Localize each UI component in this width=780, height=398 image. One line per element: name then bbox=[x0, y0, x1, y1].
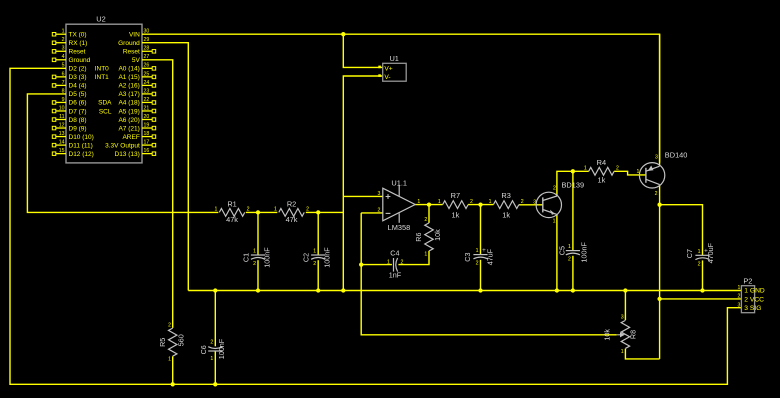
svg-text:1: 1 bbox=[387, 259, 390, 265]
svg-text:A0 (14): A0 (14) bbox=[118, 66, 139, 73]
svg-text:25: 25 bbox=[144, 71, 150, 77]
resistor R5 560 (vertical, in 5V line) bbox=[158, 322, 185, 362]
svg-text:3 SIG: 3 SIG bbox=[744, 305, 761, 312]
svg-text:R1: R1 bbox=[227, 200, 236, 209]
svg-text:AREF: AREF bbox=[122, 134, 139, 141]
svg-text:28: 28 bbox=[144, 46, 150, 52]
svg-text:1: 1 bbox=[62, 29, 65, 35]
wire C5 top lead bbox=[572, 171, 574, 250]
svg-text:R8: R8 bbox=[629, 330, 638, 339]
junction feedback / C4 bbox=[359, 262, 363, 266]
resistor R3 1k bbox=[489, 191, 524, 219]
wire op-amp - input from feedback vertical bbox=[361, 212, 383, 214]
svg-text:1: 1 bbox=[215, 207, 218, 213]
wire collector node right to C7 top bbox=[660, 205, 703, 256]
svg-text:4: 4 bbox=[62, 54, 65, 60]
svg-text:9: 9 bbox=[62, 97, 65, 103]
svg-text:3: 3 bbox=[378, 191, 381, 197]
wire C7 bottom lead to GND rail bbox=[702, 260, 704, 290]
junction BD140 collector / C7 node bbox=[657, 203, 661, 207]
wire R1 out to R2 in bbox=[246, 211, 277, 213]
wire op-amp output to R7 bbox=[415, 204, 442, 206]
svg-text:100nF: 100nF bbox=[217, 338, 226, 359]
svg-text:1: 1 bbox=[210, 356, 213, 362]
svg-text:C5: C5 bbox=[558, 246, 567, 255]
svg-text:Reset: Reset bbox=[123, 49, 140, 56]
svg-text:23: 23 bbox=[144, 88, 150, 94]
svg-text:18: 18 bbox=[144, 131, 150, 137]
resistor R6 10k (vertical, op-amp feedback) bbox=[414, 217, 442, 257]
resistor R7 1k bbox=[438, 191, 473, 219]
svg-text:2: 2 bbox=[306, 207, 309, 213]
junction bottom rail / C6 bbox=[213, 382, 217, 386]
svg-text:A1 (15): A1 (15) bbox=[118, 74, 139, 81]
svg-text:13: 13 bbox=[59, 131, 65, 137]
wire BD140 collector down to R8 bottom corner bbox=[659, 185, 661, 359]
capacitor C7 470uF (polarized) bbox=[685, 242, 715, 267]
svg-text:INT1: INT1 bbox=[95, 74, 109, 81]
svg-text:1: 1 bbox=[438, 199, 441, 205]
wire C6 top lead from GND rail bbox=[214, 291, 216, 347]
wire R8 bottom lead to collector vertical bbox=[625, 349, 659, 359]
svg-text:10k: 10k bbox=[433, 229, 442, 241]
svg-text:2: 2 bbox=[568, 257, 571, 263]
junction VIN / U1 V+ tap bbox=[341, 32, 345, 36]
svg-text:2: 2 bbox=[553, 185, 556, 191]
svg-text:V-: V- bbox=[384, 74, 390, 81]
svg-text:26: 26 bbox=[144, 63, 150, 69]
svg-text:47k: 47k bbox=[286, 215, 298, 224]
junction bottom rail / R5 bbox=[171, 382, 175, 386]
svg-text:C6: C6 bbox=[199, 345, 208, 354]
junction R7/R3/C3 bbox=[478, 202, 482, 206]
svg-text:47k: 47k bbox=[226, 215, 238, 224]
junction R2 out / C2 bbox=[316, 210, 320, 214]
svg-text:19: 19 bbox=[144, 122, 150, 128]
wire BD140 emitter up to VIN vertical bbox=[659, 34, 661, 166]
svg-text:2: 2 bbox=[401, 259, 404, 265]
power symbol U1 (op-amp supply V+/V-) bbox=[378, 54, 406, 81]
svg-text:INT0: INT0 bbox=[95, 66, 109, 73]
svg-text:100nF: 100nF bbox=[262, 247, 271, 268]
svg-text:3: 3 bbox=[621, 315, 624, 321]
wire C1 bottom lead bbox=[257, 260, 259, 290]
svg-text:16: 16 bbox=[144, 148, 150, 154]
svg-text:C3: C3 bbox=[463, 252, 472, 261]
wire op-amp + input from x=343 vertical bbox=[343, 195, 383, 197]
wire U2 pin 8 D5 down to R1 input bbox=[27, 94, 218, 212]
svg-text:24: 24 bbox=[144, 80, 150, 86]
svg-text:2 VCC: 2 VCC bbox=[744, 296, 764, 303]
svg-text:1: 1 bbox=[698, 249, 701, 255]
svg-text:5V: 5V bbox=[132, 57, 141, 64]
svg-text:D6 (6): D6 (6) bbox=[69, 100, 87, 107]
svg-text:C7: C7 bbox=[685, 249, 694, 258]
svg-text:560: 560 bbox=[176, 334, 185, 346]
svg-text:+: + bbox=[704, 248, 708, 255]
svg-text:+: + bbox=[482, 247, 486, 254]
wire C3 bottom lead to GND rail bbox=[480, 260, 482, 291]
svg-text:10: 10 bbox=[59, 105, 65, 111]
svg-text:U2: U2 bbox=[96, 15, 105, 24]
svg-text:12: 12 bbox=[59, 122, 65, 128]
wire U1 V- down to GND rail (long vertical x=343) bbox=[343, 76, 382, 291]
wire VCC line to P2 pin 2 bbox=[660, 298, 742, 300]
wire R8 top lead from GND rail bbox=[624, 291, 626, 321]
junction GND rail / x=343 vertical bbox=[341, 288, 345, 292]
svg-text:21: 21 bbox=[144, 105, 150, 111]
svg-text:11: 11 bbox=[59, 114, 64, 120]
resistor R1 47k bbox=[215, 200, 250, 224]
resistor R4 1k bbox=[584, 158, 619, 184]
svg-text:2: 2 bbox=[378, 208, 381, 214]
svg-text:2: 2 bbox=[62, 37, 65, 43]
svg-text:D7 (7): D7 (7) bbox=[69, 108, 87, 115]
transistor Q1 BD139 (NPN) bbox=[533, 180, 584, 224]
wire C3 top lead bbox=[480, 205, 482, 255]
svg-text:2: 2 bbox=[521, 199, 524, 205]
svg-text:2: 2 bbox=[253, 261, 256, 267]
capacitor C2 100nF bbox=[302, 247, 332, 268]
svg-text:P2: P2 bbox=[743, 277, 752, 286]
svg-text:SDA: SDA bbox=[98, 100, 112, 107]
junction GND rail / C2 bbox=[316, 288, 320, 292]
capacitor C1 100nF bbox=[241, 247, 271, 268]
svg-text:2: 2 bbox=[698, 261, 701, 267]
svg-text:2: 2 bbox=[655, 191, 658, 197]
wire BD139 emitter down to GND rail bbox=[556, 215, 558, 291]
wire R3 out to BD139 base bbox=[519, 204, 543, 206]
wire U2 pin 29 Ground to GND rail start bbox=[142, 43, 188, 291]
capacitor C6 100nF (flipped) bbox=[199, 338, 226, 362]
svg-text:1 GND: 1 GND bbox=[744, 288, 765, 295]
svg-text:2: 2 bbox=[738, 294, 741, 300]
junction GND rail / C1 bbox=[256, 288, 260, 292]
svg-text:3: 3 bbox=[655, 155, 658, 161]
svg-text:17: 17 bbox=[144, 139, 150, 145]
svg-text:SCL: SCL bbox=[99, 108, 112, 115]
wire U1 V+ from VIN junction bbox=[343, 34, 382, 67]
svg-text:2: 2 bbox=[168, 322, 171, 328]
svg-text:D5 (5): D5 (5) bbox=[69, 91, 87, 98]
wire R5 bottom to bottom rail bbox=[172, 356, 174, 384]
junction op-amp output / R6 top bbox=[427, 202, 431, 206]
potentiometer R8 10k with wiper arrow bbox=[602, 315, 637, 355]
wire U2 pin 5 D2 down-left, along bottom rail to P2 SIG bbox=[10, 68, 741, 384]
svg-text:1: 1 bbox=[253, 249, 256, 255]
svg-text:1: 1 bbox=[568, 244, 571, 250]
svg-text:A5 (19): A5 (19) bbox=[118, 108, 139, 115]
svg-text:D2 (2): D2 (2) bbox=[69, 66, 87, 73]
svg-text:D11 (11): D11 (11) bbox=[69, 142, 93, 149]
svg-text:BD139: BD139 bbox=[562, 180, 585, 189]
svg-text:1: 1 bbox=[738, 285, 741, 291]
svg-text:D4 (4): D4 (4) bbox=[69, 83, 87, 90]
svg-text:2: 2 bbox=[313, 261, 316, 267]
svg-text:1k: 1k bbox=[597, 175, 605, 184]
junction VCC line / BD140 collector vertical bbox=[657, 297, 661, 301]
IC U2 (Arduino Nano) with pin numbers and pin labels bbox=[52, 15, 155, 163]
svg-text:1: 1 bbox=[584, 166, 587, 172]
svg-text:VIN: VIN bbox=[129, 32, 140, 39]
svg-text:2: 2 bbox=[470, 199, 473, 205]
svg-text:D9 (9): D9 (9) bbox=[69, 125, 87, 132]
svg-text:U1: U1 bbox=[389, 54, 398, 63]
svg-text:C2: C2 bbox=[302, 253, 311, 262]
wire R6 bottom lead to C4 right plate bbox=[398, 251, 429, 265]
svg-text:D3 (3): D3 (3) bbox=[69, 74, 87, 81]
svg-text:2: 2 bbox=[476, 261, 479, 267]
svg-text:3: 3 bbox=[533, 199, 536, 205]
svg-text:1: 1 bbox=[553, 219, 556, 225]
svg-text:Reset: Reset bbox=[69, 49, 86, 56]
junction GND rail / R8 top bbox=[623, 288, 627, 292]
svg-text:A2 (16): A2 (16) bbox=[118, 83, 139, 90]
svg-text:6: 6 bbox=[62, 71, 65, 77]
svg-text:A4 (18): A4 (18) bbox=[118, 100, 139, 107]
wire feedback: - input down, right to R8 wiper bbox=[361, 213, 617, 335]
svg-text:R5: R5 bbox=[158, 338, 167, 347]
wire U2 pin 27 5V down to R5 top bbox=[142, 60, 173, 328]
svg-text:TX (0): TX (0) bbox=[69, 32, 87, 39]
wire R4 out to BD140 base (with jog) bbox=[614, 171, 646, 175]
svg-text:100nF: 100nF bbox=[580, 242, 589, 263]
svg-text:1: 1 bbox=[417, 199, 420, 205]
capacitor C3 47uF (polarized) bbox=[463, 247, 494, 267]
wire C4 left plate to feedback vertical bbox=[361, 264, 392, 266]
svg-text:A7 (21): A7 (21) bbox=[118, 125, 139, 132]
wire VIN net: U2 pin 30 to BD140 emitter, via top rail bbox=[142, 34, 660, 162]
junction GND rail / BD139 emitter bbox=[555, 288, 559, 292]
svg-text:R7: R7 bbox=[451, 191, 460, 200]
junction BD139 collector rail / C5 bbox=[571, 169, 575, 173]
capacitor C4 1nF (horizontal) bbox=[387, 248, 403, 279]
wire R6 top lead bbox=[428, 205, 430, 223]
junction GND rail / C7 bbox=[700, 288, 704, 292]
svg-text:7: 7 bbox=[62, 80, 65, 86]
wire C2 bottom lead bbox=[317, 260, 319, 290]
svg-text:2: 2 bbox=[616, 166, 619, 172]
svg-text:15: 15 bbox=[59, 148, 65, 154]
svg-text:D12 (12): D12 (12) bbox=[69, 151, 94, 158]
junction GND rail / C5 bbox=[571, 288, 575, 292]
svg-text:1: 1 bbox=[313, 249, 316, 255]
svg-text:R2: R2 bbox=[287, 200, 296, 209]
svg-text:R3: R3 bbox=[501, 191, 510, 200]
wire C6 bottom lead to bottom rail bbox=[214, 351, 216, 384]
svg-text:1k: 1k bbox=[451, 210, 459, 219]
svg-text:100nF: 100nF bbox=[323, 247, 332, 268]
svg-text:Ground: Ground bbox=[118, 40, 140, 47]
junction GND rail / C6 top bbox=[213, 288, 217, 292]
svg-text:14: 14 bbox=[59, 139, 65, 145]
svg-text:1: 1 bbox=[637, 169, 640, 175]
op-amp U1.1 LM358 bbox=[378, 179, 421, 232]
svg-text:U1.1: U1.1 bbox=[391, 179, 407, 188]
resistor R2 47k bbox=[274, 200, 309, 224]
svg-text:22: 22 bbox=[144, 97, 150, 103]
svg-text:V+: V+ bbox=[384, 65, 392, 72]
svg-text:D13 (13): D13 (13) bbox=[115, 151, 140, 158]
connector P2 (GND/VCC/SIG header) bbox=[738, 277, 765, 313]
svg-text:1: 1 bbox=[621, 349, 624, 355]
svg-text:1k: 1k bbox=[502, 210, 510, 219]
svg-text:D10 (10): D10 (10) bbox=[69, 134, 94, 141]
svg-text:1: 1 bbox=[274, 207, 277, 213]
svg-text:2: 2 bbox=[210, 339, 213, 345]
svg-text:1: 1 bbox=[424, 252, 427, 258]
svg-text:BD140: BD140 bbox=[665, 150, 688, 159]
svg-text:A3 (17): A3 (17) bbox=[118, 91, 139, 98]
svg-text:1: 1 bbox=[168, 357, 171, 363]
wire R2 out to x=343 vertical bbox=[306, 211, 344, 213]
svg-text:1: 1 bbox=[489, 199, 492, 205]
wire GND rail (y=290.5) to P2 pin 1 bbox=[188, 290, 741, 292]
svg-text:47uF: 47uF bbox=[486, 248, 495, 265]
svg-text:LM358: LM358 bbox=[388, 223, 411, 232]
svg-text:2: 2 bbox=[424, 217, 427, 223]
svg-text:R6: R6 bbox=[414, 232, 423, 241]
wire C1 top lead bbox=[257, 212, 259, 255]
svg-text:10k: 10k bbox=[602, 329, 611, 341]
svg-text:D8 (8): D8 (8) bbox=[69, 117, 87, 124]
svg-text:3: 3 bbox=[738, 302, 741, 308]
svg-text:2: 2 bbox=[247, 207, 250, 213]
svg-text:C1: C1 bbox=[241, 253, 250, 262]
capacitor C5 100nF bbox=[558, 242, 589, 263]
junction R1/R2/C1 bbox=[256, 210, 260, 214]
svg-text:R4: R4 bbox=[597, 158, 606, 167]
svg-text:1nF: 1nF bbox=[389, 271, 402, 280]
svg-text:3.3V Output: 3.3V Output bbox=[105, 142, 140, 149]
svg-text:1: 1 bbox=[476, 248, 479, 254]
svg-text:20: 20 bbox=[144, 114, 150, 120]
wire R7 out to R3 in bbox=[468, 204, 493, 206]
transistor Q2 BD140 (PNP) bbox=[637, 150, 688, 197]
svg-text:Ground: Ground bbox=[69, 57, 91, 64]
svg-text:3: 3 bbox=[62, 46, 65, 52]
svg-text:A6 (20): A6 (20) bbox=[118, 117, 139, 124]
wire C5 bottom lead to GND rail bbox=[572, 256, 574, 291]
svg-text:C4: C4 bbox=[390, 248, 399, 257]
wire C2 top lead bbox=[317, 212, 319, 255]
svg-text:RX (1): RX (1) bbox=[69, 40, 88, 47]
junction GND rail / C3 bbox=[478, 288, 482, 292]
wire BD139 collector up to rail bbox=[557, 171, 589, 196]
